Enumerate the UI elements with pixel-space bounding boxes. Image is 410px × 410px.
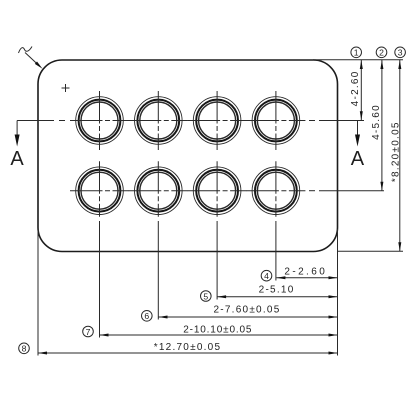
balloon 3 bbox=[395, 47, 406, 58]
svg-text:5: 5 bbox=[203, 291, 208, 301]
extension line col1 bbox=[99, 221, 101, 338]
balloon 1 bbox=[351, 47, 362, 58]
balloon 7 bbox=[83, 326, 94, 337]
dimension 6 line (2-7.60±0.05) bbox=[159, 316, 338, 319]
hole H3 (row1 col3) bbox=[193, 97, 241, 145]
svg-text:4: 4 bbox=[264, 271, 269, 281]
extension line right edge bbox=[337, 229, 339, 356]
dimension 1 line (4-2.60) bbox=[360, 60, 363, 120]
svg-text:8: 8 bbox=[22, 344, 27, 354]
balloon 8 bbox=[19, 343, 30, 354]
dimension 7 line (2-10.10±0.05) bbox=[100, 334, 338, 337]
leader squiggle mark top-left bbox=[19, 47, 33, 54]
hole H2 (row1 col2) bbox=[135, 97, 183, 145]
bottom edge extension line bbox=[338, 250, 404, 252]
balloon 2 bbox=[376, 47, 387, 58]
dimension 4 line (2-2.60) bbox=[276, 276, 337, 279]
centerline row2 crosshairs bbox=[70, 161, 305, 217]
svg-text:2-10.10±0.05: 2-10.10±0.05 bbox=[183, 324, 252, 335]
svg-text:7: 7 bbox=[86, 327, 91, 337]
top edge extension line bbox=[313, 59, 403, 61]
svg-text:1: 1 bbox=[354, 48, 359, 58]
section line A-A left segment bbox=[17, 120, 65, 122]
hole H7 (row2 col3) bbox=[193, 167, 241, 215]
centerline row2 right extension bbox=[309, 190, 384, 192]
hole H4 (row1 col4) bbox=[252, 97, 300, 145]
dimension 8 line (*12.70±0.05) bbox=[38, 352, 338, 355]
extension line col3 bbox=[216, 221, 218, 300]
svg-text:4-5.60: 4-5.60 bbox=[371, 104, 382, 140]
plus mark bbox=[62, 84, 70, 92]
dimension 3 line (*8.20±0.05) bbox=[398, 60, 401, 251]
svg-text:6: 6 bbox=[144, 311, 149, 321]
svg-text:2-5.10: 2-5.10 bbox=[259, 285, 295, 296]
hole H1 (row1 col1) bbox=[76, 97, 124, 145]
dimension 5 line (2-5.10) bbox=[217, 295, 337, 298]
balloon 6 bbox=[142, 311, 153, 322]
section arrow A right bbox=[338, 121, 364, 147]
svg-text:*8.20±0.05: *8.20±0.05 bbox=[390, 121, 401, 182]
section arrow A left bbox=[15, 121, 20, 147]
svg-text:2-2.60: 2-2.60 bbox=[284, 266, 327, 277]
dimension 2 line (4-5.60) bbox=[380, 60, 383, 191]
hole H8 (row2 col4) bbox=[252, 167, 300, 215]
centerline row1 crosshairs bbox=[70, 91, 305, 150]
svg-text:2-7.60±0.05: 2-7.60±0.05 bbox=[213, 305, 280, 316]
svg-text:2: 2 bbox=[379, 48, 384, 58]
extension line left edge bbox=[37, 230, 39, 356]
corner radius leader bbox=[25, 53, 43, 69]
svg-text:3: 3 bbox=[398, 48, 403, 58]
extension line col2 bbox=[157, 221, 159, 320]
hole H5 (row2 col1) bbox=[76, 167, 124, 215]
extension line col4 bbox=[275, 221, 277, 281]
svg-text:A: A bbox=[10, 148, 24, 170]
part outline bbox=[38, 60, 338, 252]
hole H6 (row2 col2) bbox=[135, 167, 183, 215]
balloon 4 bbox=[261, 270, 272, 281]
section line A-A right segment bbox=[309, 120, 364, 122]
svg-text:*12.70±0.05: *12.70±0.05 bbox=[154, 342, 222, 353]
svg-text:A: A bbox=[351, 148, 365, 170]
balloon 5 bbox=[201, 291, 212, 302]
svg-text:4-2.60: 4-2.60 bbox=[350, 70, 361, 106]
